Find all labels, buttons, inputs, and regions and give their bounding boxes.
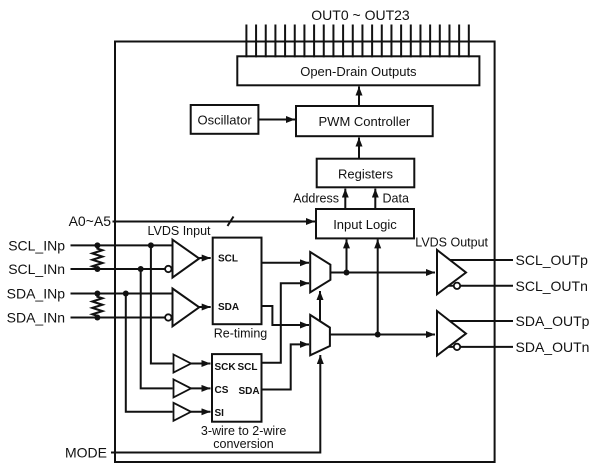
svg-text:SCL: SCL <box>218 254 238 265</box>
svg-text:SDA_INp: SDA_INp <box>7 286 66 302</box>
wire B2 to CS <box>191 387 211 389</box>
chip outline <box>115 42 495 463</box>
wire oscillator to PWM Controller <box>258 119 295 121</box>
wire SCL_OUTp <box>450 259 514 261</box>
wire mux M2 to LVDS output buffer U4 <box>330 334 435 336</box>
feedback arrow SCL to Input Logic <box>346 239 348 272</box>
svg-text:Open-Drain Outputs: Open-Drain Outputs <box>300 64 417 79</box>
wire SDA_INn <box>71 317 166 319</box>
wire Re-timing SDA to mux M2 <box>262 306 310 325</box>
wire mux M1 to LVDS output buffer U3 <box>330 272 435 274</box>
svg-text:SI: SI <box>215 408 225 419</box>
re-timing box <box>213 238 262 325</box>
svg-text:SDA: SDA <box>239 386 260 397</box>
wire SDA_OUTp <box>450 320 513 322</box>
tap wire SCL_INp to SCK buffer <box>151 245 173 363</box>
svg-text:SDA_INn: SDA_INn <box>7 310 65 326</box>
3-wire interface buffer B3 (SI) <box>174 403 192 421</box>
data arrow (Input Logic to Registers) <box>374 189 376 209</box>
oscillator box <box>191 105 259 134</box>
wire Re-timing SCL to mux M1 <box>262 262 310 264</box>
inverting input bubble U2 <box>165 314 171 320</box>
select arrow M2 to M1 <box>319 291 321 321</box>
3-wire to 2-wire conversion box <box>212 354 262 422</box>
address arrow (Input Logic to Registers) <box>344 189 346 209</box>
tap wire SDA_INp to SI buffer <box>126 294 173 412</box>
svg-text:SCK: SCK <box>215 362 237 373</box>
svg-text:SDA_OUTp: SDA_OUTp <box>516 313 590 329</box>
termination resistor R1 (SCL pair) <box>92 245 102 269</box>
svg-text:Address: Address <box>293 192 339 206</box>
LVDS output buffer U3 (SCL) <box>437 250 466 294</box>
tap wire SCL_INn to CS buffer <box>141 269 173 388</box>
wire 3-wire SCL to mux M1 <box>262 283 310 362</box>
svg-text:Oscillator: Oscillator <box>198 113 253 128</box>
svg-text:Registers: Registers <box>338 167 393 182</box>
svg-text:LVDS Output: LVDS Output <box>415 236 488 250</box>
svg-text:PWM Controller: PWM Controller <box>319 114 411 129</box>
mux M2 (SDA path) <box>310 315 330 355</box>
junction dots SDA pair <box>94 291 100 297</box>
svg-text:CS: CS <box>215 385 229 396</box>
wire Registers to PWM Controller <box>358 138 360 159</box>
svg-text:SCL_INn: SCL_INn <box>8 261 65 277</box>
3-wire interface buffer B1 (SCK) <box>174 355 192 373</box>
wire A0~A5 to Input Logic <box>113 221 316 223</box>
svg-text:SCL_OUTn: SCL_OUTn <box>516 278 588 294</box>
termination resistor R2 (SDA pair) <box>92 294 102 318</box>
wire SDA_OUTn <box>448 346 513 348</box>
PWM Controller box <box>296 106 433 136</box>
open-drain outputs box <box>237 56 479 85</box>
svg-text:conversion: conversion <box>213 437 273 451</box>
registers box <box>317 159 415 188</box>
mux M1 (SCL path) <box>310 252 330 292</box>
wire MODE to mux M2 select <box>111 355 320 453</box>
LVDS input buffer U2 (SDA) <box>173 289 200 327</box>
wire SDA_INp <box>71 293 173 295</box>
svg-text:OUT0 ~ OUT23: OUT0 ~ OUT23 <box>311 7 410 23</box>
wire 3-wire SDA to mux M2 <box>262 344 310 389</box>
output bus ticks (24 lines) <box>246 25 468 58</box>
junction dots SCL pair <box>94 242 100 248</box>
wire PWM Controller to Open-Drain Outputs <box>358 87 360 107</box>
inverting output bubble U3 <box>454 283 460 289</box>
inverting input bubble U1 <box>165 266 171 272</box>
input logic box <box>316 209 414 238</box>
bus slash on A0~A5 wire <box>228 217 234 227</box>
svg-text:SDA: SDA <box>218 302 239 313</box>
wire SCL_OUTn <box>448 285 513 287</box>
svg-text:SCL_INp: SCL_INp <box>8 237 65 253</box>
svg-text:3-wire to 2-wire: 3-wire to 2-wire <box>201 424 286 438</box>
wire SCL_INn <box>71 268 166 270</box>
wire SCL_INp <box>71 244 173 246</box>
svg-text:Data: Data <box>383 192 409 206</box>
wire B1 to SCK <box>191 363 211 365</box>
wire B3 to SI <box>191 411 211 413</box>
svg-text:MODE: MODE <box>65 445 107 461</box>
wire U2 output to Re-timing SDA <box>199 306 211 308</box>
LVDS output buffer U4 (SDA) <box>437 311 466 356</box>
3-wire interface buffer B2 (CS) <box>174 379 192 397</box>
svg-text:Input Logic: Input Logic <box>333 217 397 232</box>
wire U1 output to Re-timing SCL <box>199 257 211 259</box>
svg-text:Re-timing: Re-timing <box>214 327 268 341</box>
svg-text:LVDS Input: LVDS Input <box>148 224 212 238</box>
junction node SDA feedback <box>375 332 381 338</box>
svg-text:SCL_OUTp: SCL_OUTp <box>516 252 589 268</box>
inverting output bubble U4 <box>454 344 460 350</box>
svg-text:SDA_OUTn: SDA_OUTn <box>516 339 590 355</box>
svg-text:SCL: SCL <box>238 362 258 373</box>
svg-text:A0~A5: A0~A5 <box>69 213 112 229</box>
feedback arrow SDA to Input Logic <box>377 239 379 334</box>
junction node SCL feedback <box>344 270 350 276</box>
LVDS input buffer U1 (SCL) <box>173 240 200 278</box>
